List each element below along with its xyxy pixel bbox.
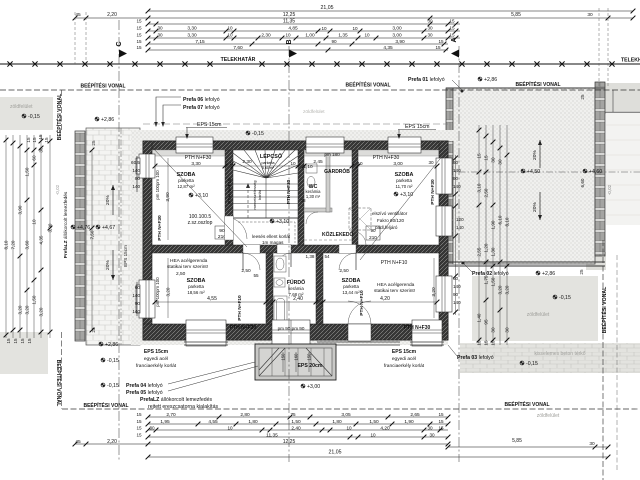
svg-text:EPS 15cm: EPS 15cm: [197, 122, 222, 128]
svg-text:parketta: parketta: [178, 178, 194, 183]
svg-text:30: 30: [498, 159, 503, 165]
svg-text:2,50: 2,50: [339, 268, 349, 274]
svg-text:Prefa 04 lefolyó: Prefa 04 lefolyó: [126, 383, 163, 389]
svg-text:+4,60: +4,60: [589, 169, 602, 175]
svg-text:150: 150: [281, 353, 286, 361]
svg-text:3,90: 3,90: [18, 205, 23, 214]
svg-text:3,90: 3,90: [165, 192, 171, 202]
svg-text:7,20: 7,20: [11, 240, 16, 249]
svg-text:140: 140: [132, 168, 140, 173]
svg-text:30: 30: [491, 157, 496, 163]
window top wall 1: [176, 137, 213, 153]
green area top-left: [0, 97, 53, 130]
door marker 90/210 right: [366, 226, 380, 240]
svg-text:3,05: 3,05: [341, 412, 351, 418]
svg-text:10: 10: [321, 26, 327, 31]
top dim row 5: [148, 37, 460, 39]
svg-text:15: 15: [136, 19, 142, 24]
svg-text:+2,86: +2,86: [484, 77, 497, 83]
svg-text:15: 15: [136, 39, 142, 44]
svg-text:2,55: 2,55: [477, 247, 482, 256]
svg-text:-0,02: -0,02: [55, 184, 60, 195]
svg-text:15: 15: [438, 39, 444, 44]
fakro hatch dashed rect: [349, 208, 371, 230]
top dim row 21,05: [148, 10, 633, 12]
svg-text:90: 90: [219, 228, 225, 234]
right wall: [439, 141, 448, 340]
svg-text:4,55: 4,55: [207, 296, 217, 302]
svg-text:90: 90: [135, 176, 141, 181]
svg-text:20%: 20%: [105, 195, 111, 205]
ramp level labels: [71, 225, 75, 229]
top dim row 2: [75, 17, 633, 19]
corridor dashed line: [304, 239, 352, 241]
green area bottom-left: [0, 332, 48, 374]
svg-text:2,50: 2,50: [241, 268, 251, 274]
svg-text:Prefa 06 lefolyó: Prefa 06 lefolyó: [183, 97, 220, 103]
svg-text:15: 15: [438, 412, 444, 417]
svg-text:Prefa 01 lefolyó: Prefa 01 lefolyó: [408, 77, 445, 83]
ramp centre dashed: [120, 128, 122, 345]
svg-text:15: 15: [449, 33, 455, 38]
svg-text:21,05: 21,05: [329, 450, 342, 456]
window right wall lower: [436, 276, 452, 312]
eaves dashed line: [143, 123, 448, 125]
svg-text:140: 140: [132, 309, 140, 314]
svg-text:PTH N+F30: PTH N+F30: [430, 179, 436, 205]
door gaps middle wall: [243, 245, 260, 254]
middle horizontal wall: [152, 245, 439, 253]
svg-text:30: 30: [505, 327, 510, 333]
svg-text:1,10: 1,10: [303, 164, 313, 170]
svg-text:2,30: 2,30: [261, 33, 271, 39]
svg-text:PTH N+F30: PTH N+F30: [230, 325, 257, 331]
svg-text:15: 15: [13, 338, 18, 344]
svg-text:4,35: 4,35: [39, 235, 44, 244]
bottom dim row 5: [75, 443, 448, 445]
svg-text:3,20: 3,20: [431, 287, 437, 297]
svg-text:1,50: 1,50: [291, 419, 301, 425]
svg-text:3,30: 3,30: [191, 161, 201, 167]
window top wall 2: [388, 137, 421, 153]
svg-text:30: 30: [428, 160, 434, 165]
svg-text:60: 60: [135, 285, 141, 290]
neighbour paving right edge: [606, 113, 640, 225]
svg-text:13,44 m²: 13,44 m²: [342, 290, 360, 295]
interior wall gardrob/szoba2: [352, 150, 358, 245]
svg-text:30: 30: [149, 426, 155, 431]
svg-text:90: 90: [331, 39, 337, 44]
svg-text:30: 30: [39, 147, 44, 153]
svg-text:150: 150: [307, 353, 312, 361]
bottom dim row 1: [148, 416, 448, 418]
svg-text:1,00: 1,00: [305, 33, 315, 39]
svg-text:EPS 15cm: EPS 15cm: [405, 124, 430, 130]
svg-text:10: 10: [290, 161, 296, 166]
svg-text:3,00: 3,00: [392, 33, 402, 39]
svg-text:10: 10: [227, 26, 233, 31]
svg-text:4,20: 4,20: [380, 426, 390, 432]
aux dashed verticals left: [75, 12, 86, 64]
bottom dim row 3: [148, 429, 448, 431]
left prefab wall strip: [75, 131, 85, 341]
svg-text:1,95: 1,95: [160, 419, 170, 425]
wc fixtures: [306, 164, 317, 173]
interior dim line bottom rooms: [155, 301, 437, 303]
svg-text:franciaerkély korlát: franciaerkély korlát: [136, 363, 177, 369]
svg-text:PTH N+F30: PTH N+F30: [373, 155, 400, 161]
wc partition vertical: [326, 150, 330, 212]
svg-text:10: 10: [346, 426, 352, 431]
svg-text:-0,15: -0,15: [526, 361, 538, 367]
svg-text:1m magas: 1m magas: [262, 240, 284, 245]
svg-text:pm 90 pm 90: pm 90 pm 90: [278, 326, 305, 331]
svg-text:2,80: 2,80: [240, 412, 250, 418]
leader prefa02: [463, 263, 472, 272]
svg-text:10: 10: [357, 161, 363, 166]
svg-text:EPS 15cm: EPS 15cm: [392, 349, 417, 355]
svg-text:3,30: 3,30: [187, 33, 197, 39]
svg-text:20%: 20%: [532, 150, 538, 160]
svg-text:15: 15: [491, 340, 496, 346]
svg-text:12,25: 12,25: [283, 439, 296, 445]
svg-text:15: 15: [435, 45, 441, 50]
svg-text:+2,86: +2,86: [101, 117, 114, 123]
svg-text:HEA acélgerenda: HEA acélgerenda: [170, 258, 208, 264]
interior wall szoba3/furdo: [266, 253, 273, 324]
left wall offset dim: [49, 135, 51, 338]
svg-text:15: 15: [38, 134, 43, 140]
svg-text:45: 45: [75, 439, 81, 445]
svg-text:+4,67: +4,67: [102, 225, 115, 231]
svg-text:10: 10: [32, 219, 37, 225]
svg-text:90: 90: [135, 301, 141, 306]
svg-text:140: 140: [453, 284, 461, 289]
right wall window dim line: [455, 155, 457, 315]
svg-text:1,90: 1,90: [404, 419, 414, 425]
svg-text:3,20: 3,20: [18, 305, 23, 314]
balcony rail left: [317, 342, 400, 345]
svg-text:95: 95: [484, 319, 489, 325]
green area right of building: [472, 276, 598, 341]
svg-text:3,60: 3,60: [25, 240, 30, 249]
bottom dim row 4: [148, 436, 448, 438]
svg-text:PrefaLZ állókorcolt lemezfedés: PrefaLZ állókorcolt lemezfedés: [63, 191, 69, 258]
beepitesi vonal right vertical dashed: [602, 240, 604, 480]
leader prefa03: [448, 345, 457, 356]
svg-text:+4,50: +4,50: [527, 169, 540, 175]
left vertical dim lines: [6, 135, 41, 338]
stair landing rail dashed: [233, 218, 298, 245]
svg-text:1,35: 1,35: [338, 33, 348, 39]
svg-text:15: 15: [449, 19, 455, 24]
svg-text:franciaerkély korlát: franciaerkély korlát: [384, 363, 425, 369]
svg-text:140: 140: [132, 184, 140, 189]
svg-text:15: 15: [136, 426, 142, 431]
svg-text:A: A: [451, 37, 458, 42]
slope arrow terrace upper: [539, 140, 541, 168]
svg-text:HEA acélgerenda: HEA acélgerenda: [377, 282, 415, 288]
svg-text:30: 30: [427, 19, 433, 24]
svg-text:2,40: 2,40: [291, 426, 301, 432]
window right wall upper: [436, 158, 452, 194]
diagonal leader szoba2: [360, 150, 447, 260]
svg-text:75: 75: [290, 412, 296, 417]
svg-text:EPS 20cm: EPS 20cm: [297, 363, 322, 369]
right vertical dim lines: [479, 125, 507, 345]
svg-text:140: 140: [132, 293, 140, 298]
svg-text:2,50: 2,50: [176, 271, 186, 277]
terrace right prefab wall: [595, 82, 605, 256]
svg-text:10: 10: [364, 33, 370, 38]
slope arrow terrace lower: [539, 192, 541, 220]
svg-text:pm 100pm 100: pm 100pm 100: [155, 277, 160, 307]
terrace top edge: [446, 87, 605, 89]
svg-text:3,10: 3,10: [477, 183, 482, 192]
window bottom wall 1 french: [184, 320, 228, 346]
svg-text:zöldfelület: zöldfelület: [527, 312, 550, 318]
svg-text:zöldfelület: zöldfelület: [10, 104, 33, 110]
svg-text:statikai terv szerint!: statikai terv szerint!: [167, 264, 208, 270]
marker A triangle: [451, 50, 459, 58]
svg-text:5,85: 5,85: [512, 438, 522, 444]
section line B: [288, 46, 290, 462]
wc door arc: [306, 212, 318, 224]
svg-text:1,50: 1,50: [369, 419, 379, 425]
door gap bottom wall: [348, 324, 371, 341]
svg-text:padl.feljáró: padl.feljáró: [375, 225, 398, 230]
svg-text:-0,15: -0,15: [28, 114, 40, 120]
wc partition: [304, 208, 332, 212]
svg-text:2,45: 2,45: [313, 159, 323, 165]
svg-text:30: 30: [587, 12, 593, 18]
svg-text:+2,86: +2,86: [542, 271, 555, 277]
svg-text:3,20: 3,20: [25, 305, 30, 314]
svg-text:15: 15: [136, 26, 142, 31]
svg-text:45: 45: [75, 12, 81, 18]
svg-text:15: 15: [26, 137, 31, 143]
svg-text:3,20: 3,20: [505, 285, 510, 294]
svg-text:6,10: 6,10: [498, 215, 503, 224]
svg-text:25: 25: [91, 140, 96, 146]
svg-text:B: B: [286, 39, 293, 44]
terrace left prefab wall: [446, 88, 453, 264]
svg-text:11,35: 11,35: [283, 19, 295, 25]
svg-text:BEÉPÍTÉSI VONAL: BEÉPÍTÉSI VONAL: [345, 81, 390, 89]
interior wall szoba1/stair: [225, 150, 233, 245]
svg-text:egyedi acél: egyedi acél: [392, 356, 416, 362]
window left wall lower: [136, 280, 155, 318]
svg-text:30: 30: [157, 33, 163, 38]
svg-text:BEÉPÍTÉSI VONAL: BEÉPÍTÉSI VONAL: [515, 80, 560, 88]
EPS dotted band left of building: [131, 130, 143, 345]
interior wall furdo/szoba4: [316, 253, 323, 324]
svg-text:pm 180: pm 180: [324, 152, 340, 157]
porch small dims: [283, 352, 309, 372]
svg-text:1,30 m²: 1,30 m²: [306, 194, 321, 199]
section line A: [458, 46, 460, 462]
svg-text:+3,00: +3,00: [307, 384, 320, 390]
section line C: [118, 20, 120, 462]
interior wall stair/wc: [298, 150, 304, 245]
svg-text:3,00: 3,00: [392, 26, 402, 32]
svg-text:z.sz.oszlop: z.sz.oszlop: [188, 220, 213, 226]
svg-text:140: 140: [453, 184, 461, 189]
svg-text:1,30: 1,30: [491, 247, 496, 256]
svg-text:15: 15: [484, 340, 489, 346]
svg-text:PrefaLZ állókorcolt lemezfedés: PrefaLZ állókorcolt lemezfedés: [140, 397, 212, 403]
top wall: [143, 141, 448, 150]
svg-text:EPS 15cm: EPS 15cm: [123, 245, 128, 267]
leader prefa04/05: [168, 362, 258, 391]
svg-text:-0,15: -0,15: [107, 358, 119, 364]
big diagonal leader across szoba1: [152, 147, 247, 247]
interior vertical dim lines: [168, 158, 434, 318]
svg-text:140: 140: [453, 168, 461, 173]
svg-text:10: 10: [227, 33, 233, 38]
svg-text:18,56 m²: 18,56 m²: [187, 290, 205, 295]
bottom dim row 2: [148, 423, 448, 425]
svg-text:15: 15: [20, 338, 25, 344]
svg-text:25: 25: [91, 327, 96, 333]
svg-text:3,20: 3,20: [39, 307, 44, 316]
svg-text:30: 30: [589, 441, 595, 447]
svg-text:PTH N+F30: PTH N+F30: [286, 179, 291, 204]
svg-text:parketta: parketta: [396, 178, 412, 183]
svg-text:-0,15: -0,15: [559, 295, 571, 301]
top dim row 3: [148, 23, 460, 25]
svg-text:parketta: parketta: [188, 284, 204, 289]
svg-text:Prefa 02 lefolyó: Prefa 02 lefolyó: [472, 271, 509, 277]
beepitesi vonal top dashed: [0, 89, 640, 91]
left ramp strip bricks: [86, 128, 140, 345]
svg-text:1,90: 1,90: [491, 220, 496, 229]
svg-text:12,25: 12,25: [283, 12, 296, 18]
svg-text:3,90: 3,90: [395, 39, 405, 45]
window dim stacks: [131, 160, 140, 314]
terrace level labels: [521, 169, 525, 173]
bottom wall: [143, 324, 448, 340]
svg-text:60,5: 60,5: [131, 160, 140, 165]
window left wall upper: [136, 154, 155, 178]
svg-text:elszívó ventillátor: elszívó ventillátor: [372, 211, 408, 216]
top dim row 7: [148, 49, 448, 51]
svg-text:BEÉPÍTÉSI VONAL: BEÉPÍTÉSI VONAL: [504, 400, 549, 408]
svg-text:15: 15: [27, 338, 32, 344]
svg-text:15: 15: [136, 433, 142, 438]
svg-text:210: 210: [369, 235, 377, 240]
svg-text:BEÉPÍTÉSI VONAL: BEÉPÍTÉSI VONAL: [80, 82, 125, 90]
svg-text:25: 25: [580, 94, 585, 100]
beepitesi vonal bottom dashed: [62, 408, 640, 410]
slope arrow ramp upper: [112, 185, 114, 215]
green area top-right corner: [605, 83, 640, 112]
leader prefa01: [452, 80, 462, 90]
svg-text:PTH N+F10: PTH N+F10: [227, 178, 233, 204]
svg-text:30: 30: [427, 426, 433, 431]
top dim row 4: [148, 30, 460, 32]
svg-text:GARDRÓB: GARDRÓB: [324, 167, 350, 175]
svg-text:11,70 m²: 11,70 m²: [395, 184, 413, 189]
svg-text:C: C: [116, 41, 123, 46]
svg-text:15: 15: [136, 45, 142, 50]
left wall: [143, 141, 152, 340]
small grey patch below terrace right: [586, 252, 606, 270]
svg-text:BEÉPÍTÉSI VONAL: BEÉPÍTÉSI VONAL: [55, 360, 63, 408]
svg-text:7,15: 7,15: [195, 39, 205, 45]
svg-text:15: 15: [477, 340, 482, 346]
leader prefa06/07: [156, 97, 181, 124]
svg-text:60: 60: [32, 155, 37, 161]
svg-text:PTH N+F30: PTH N+F30: [157, 215, 163, 241]
svg-text:15: 15: [136, 419, 142, 424]
svg-text:30: 30: [157, 26, 163, 31]
svg-text:20%: 20%: [532, 202, 538, 212]
svg-text:3,30: 3,30: [187, 26, 197, 32]
svg-text:30: 30: [427, 33, 433, 38]
svg-text:kisselemes beton térkő: kisselemes beton térkő: [534, 351, 585, 357]
svg-text:10: 10: [227, 426, 233, 431]
entrance porch: [255, 344, 336, 380]
svg-text:KÖZLEKEDŐ: KÖZLEKEDŐ: [322, 231, 354, 238]
svg-text:10: 10: [229, 161, 235, 166]
svg-text:10: 10: [285, 33, 291, 38]
svg-text:BEÉPÍTÉSI VONAL: BEÉPÍTÉSI VONAL: [83, 401, 128, 409]
svg-text:PTH N+F10: PTH N+F10: [359, 290, 365, 316]
svg-text:55: 55: [253, 273, 259, 278]
svg-text:Prefa 07 lefolyó: Prefa 07 lefolyó: [183, 105, 220, 111]
EPS dotted band bottom of building: [143, 336, 448, 345]
svg-text:11,35: 11,35: [266, 433, 278, 439]
svg-text:38: 38: [300, 198, 306, 203]
svg-text:parketta: parketta: [343, 284, 359, 289]
svg-text:140: 140: [456, 225, 464, 230]
left column rotated dims: [4, 134, 171, 344]
svg-text:140: 140: [453, 300, 461, 305]
svg-text:+3,10: +3,10: [400, 192, 413, 198]
svg-text:15: 15: [438, 419, 444, 424]
concrete paving band bottom-right: [460, 343, 640, 373]
svg-text:zöldfelület: zöldfelület: [537, 413, 560, 419]
svg-text:25: 25: [579, 269, 584, 275]
svg-text:2,50: 2,50: [484, 188, 489, 197]
svg-text:2,70: 2,70: [166, 412, 176, 418]
svg-text:rejtett ereszcsatorna kialakít: rejtett ereszcsatorna kialakítás: [148, 404, 218, 410]
svg-text:1,50: 1,50: [25, 167, 30, 176]
svg-text:korlát: korlát: [257, 189, 262, 200]
svg-text:LÉPCSŐ: LÉPCSŐ: [260, 152, 282, 160]
svg-text:4,20: 4,20: [380, 296, 390, 302]
EPS band inside terrace left: [453, 88, 461, 264]
svg-text:2,20: 2,20: [107, 439, 117, 445]
svg-text:Prefa 05 lefolyó: Prefa 05 lefolyó: [126, 390, 163, 396]
svg-text:+2,86: +2,86: [105, 342, 118, 348]
slope arrow ramp lower: [112, 250, 114, 280]
svg-text:-0,15: -0,15: [107, 383, 119, 389]
svg-text:160: 160: [294, 353, 299, 361]
window dim stack lines left: [136, 156, 138, 316]
door szoba1 with arc: [225, 217, 247, 239]
svg-text:PTH N+F30: PTH N+F30: [404, 325, 431, 331]
svg-text:4,55: 4,55: [208, 419, 218, 425]
svg-text:3,20: 3,20: [498, 285, 503, 294]
window right wall mid: [436, 206, 452, 236]
svg-text:30: 30: [491, 327, 496, 333]
ramp width dim: [91, 150, 93, 330]
svg-text:120: 120: [456, 217, 464, 222]
svg-text:1,80: 1,80: [248, 419, 258, 425]
marker C triangle: [119, 50, 127, 58]
